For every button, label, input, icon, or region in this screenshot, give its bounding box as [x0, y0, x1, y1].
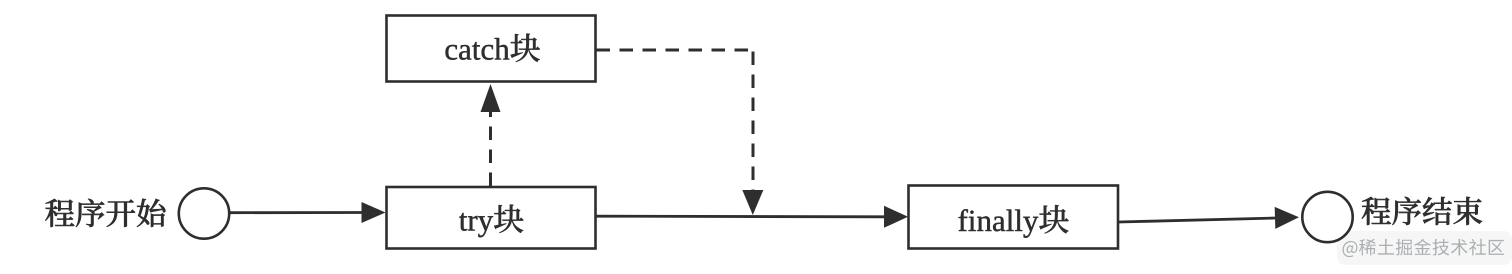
scan smudge: [1337, 231, 1512, 265]
label 程序开始 (program start): [45, 199, 165, 227]
end circle node: [1302, 192, 1352, 242]
dashed wire: elbow down segment: [752, 52, 755, 193]
wire: finally block to end circle: [1119, 218, 1277, 222]
finally block box: [909, 186, 1119, 249]
start circle node: [179, 188, 229, 238]
wire: start to try block: [230, 211, 364, 214]
label finally块: [959, 205, 1069, 238]
wire: try block to finally block: [596, 215, 886, 218]
label catch块: [446, 34, 541, 63]
try block box: [387, 187, 596, 249]
label 程序结束 (program end): [1362, 197, 1482, 225]
catch block box: [387, 16, 596, 82]
dashed wire: catch block to junction (elbow): [597, 49, 754, 52]
dashed wire: try block up to catch block: [489, 110, 492, 186]
watermark @稀土掘金技术社区: [1343, 239, 1505, 257]
label try块: [459, 205, 523, 238]
